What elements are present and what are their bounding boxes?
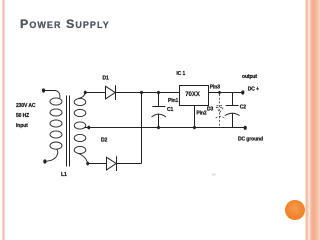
- capacitor C2: [225, 93, 240, 128]
- svg-text:C2: C2: [240, 104, 247, 110]
- core: [67, 96, 70, 167]
- wire secondary top lead: [79, 93, 86, 99]
- wire primary top lead: [44, 91, 60, 98]
- svg-text:DC ground: DC ground: [238, 136, 263, 142]
- wire D2 cathode to riser: [117, 163, 142, 165]
- svg-text:L1: L1: [61, 172, 67, 178]
- svg-text:50 HZ: 50 HZ: [16, 113, 29, 119]
- svg-text:230V AC: 230V AC: [16, 103, 36, 109]
- svg-text:Pin3: Pin3: [210, 85, 220, 91]
- node DC+ output terminal: [241, 90, 244, 94]
- svg-text:D3: D3: [207, 106, 214, 112]
- node primary top terminal: [42, 88, 45, 92]
- svg-text:C1: C1: [167, 107, 174, 113]
- voltage regulator IC1 (70XX): [180, 86, 209, 106]
- node junction D3 top: [218, 91, 220, 94]
- capacitor C1: [152, 93, 167, 128]
- right accent stripes: [305, 0, 320, 240]
- node junction C1 top: [157, 91, 160, 95]
- svg-text:DC +: DC +: [248, 86, 259, 92]
- svg-text:output: output: [242, 74, 257, 80]
- wire secondary bottom lead: [79, 153, 88, 163]
- wire ground rail: [89, 127, 245, 129]
- node DC ground terminal: [244, 126, 247, 130]
- svg-text:input: input: [16, 123, 28, 129]
- diode D2: [107, 156, 117, 171]
- diode D3 (dashed): [216, 94, 225, 127]
- wire secondary centre tap: [84, 127, 88, 129]
- left accent line: [2, 0, 5, 240]
- wire top rail (secondary top to D1 anode): [85, 92, 105, 94]
- node junction D2 feed: [140, 91, 143, 95]
- svg-text:Pin1: Pin1: [168, 98, 178, 104]
- slide title: [20, 17, 110, 31]
- primary winding: [50, 98, 62, 149]
- wire D2 anode rail: [88, 163, 107, 165]
- node secondary centre tap terminal: [87, 126, 90, 130]
- transformer L1: [42, 88, 90, 166]
- svg-text:IC 1: IC 1: [176, 71, 185, 77]
- node secondary top terminal: [84, 91, 87, 95]
- wire top rail (D1 cathode to regulator input): [116, 92, 180, 94]
- node primary bottom terminal: [43, 159, 46, 163]
- wire primary bottom lead: [46, 149, 58, 161]
- wire D2 cathode riser: [141, 93, 143, 164]
- wire pin2 to ground: [194, 106, 196, 128]
- diode D1: [106, 85, 116, 100]
- label 230V AC 50 HZ input: [16, 103, 36, 129]
- svg-text:D1: D1: [103, 76, 110, 82]
- svg-text:Pin2: Pin2: [196, 111, 206, 117]
- svg-text:70XX: 70XX: [185, 92, 200, 98]
- wire output rail: [209, 92, 243, 94]
- node junction pin2 ground: [193, 126, 196, 130]
- node faint junction mark: [212, 173, 216, 175]
- node junction C1 bottom: [157, 126, 160, 130]
- svg-text:D2: D2: [101, 138, 108, 144]
- orange circle: [285, 200, 305, 220]
- node secondary bottom terminal: [86, 162, 89, 166]
- secondary winding: [74, 98, 86, 153]
